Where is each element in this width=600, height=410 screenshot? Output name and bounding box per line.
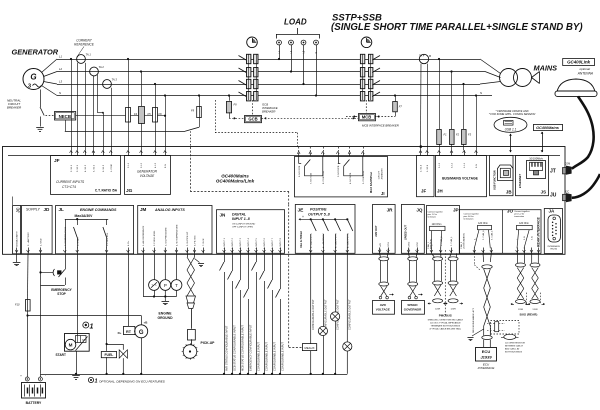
connector JF2 mains CT	[417, 156, 435, 197]
fuse F3	[463, 84, 465, 129]
dashed control wire down to controller	[190, 131, 192, 147]
output 2 wire and lamp	[323, 253, 325, 373]
sensor oil pressure	[164, 253, 166, 279]
svg-text:3- FUEL SOL.: 3- FUEL SOL.	[107, 232, 109, 246]
ground engine sensors	[164, 297, 166, 302]
dashed control wire down to relay pin	[297, 133, 299, 147]
svg-text:terminate: terminate	[428, 216, 437, 219]
svg-text:5- COM MCB: 5- COM MCB	[363, 170, 365, 184]
svg-text:NECB: NECB	[59, 114, 71, 119]
connector JI breaker relays	[295, 157, 388, 197]
label box GC400Mains small	[534, 124, 563, 130]
wire N to JG pin	[165, 96, 167, 151]
timer clock MCB	[361, 37, 372, 48]
svg-text:INPUT 1..8: INPUT 1..8	[232, 217, 250, 221]
svg-text:2- S1.4: 2- S1.4	[421, 164, 423, 172]
emergency stop mushroom	[41, 271, 54, 273]
connector JQ speed out	[401, 205, 424, 254]
svg-text:JE: JE	[298, 208, 305, 214]
svg-text:GC400Mains: GC400Mains	[536, 126, 559, 130]
svg-text:3- NO MCB: 3- NO MCB	[338, 165, 340, 177]
bottom negative bus	[41, 374, 348, 376]
svg-text:BOTH BUS ENDS: BOTH BUS ENDS	[505, 352, 523, 354]
node F9 tap	[198, 94, 200, 96]
dashed termination JO pin4	[473, 253, 475, 264]
svg-text:RT: RT	[126, 330, 132, 334]
pickup twisted pair	[187, 253, 189, 257]
label optional note	[88, 377, 93, 382]
wire start motor return	[76, 351, 78, 374]
svg-text:JT: JT	[550, 168, 556, 174]
svg-text:START: START	[56, 353, 66, 357]
fuse F6	[155, 84, 157, 107]
svg-text:D+: D+	[118, 331, 122, 335]
svg-text:P: P	[164, 283, 167, 288]
connector JC signal earth	[13, 206, 21, 254]
svg-text:L2: L2	[59, 67, 63, 71]
svg-text:MCB STATUS CONFIGURABLE INPUT: MCB STATUS CONFIGURABLE INPUT	[240, 325, 244, 371]
can rear pair at 535	[531, 253, 533, 263]
svg-text:OPTIONAL, DEPENDING ON ECU FEA: OPTIONAL, DEPENDING ON ECU FEATURES	[99, 379, 166, 383]
svg-text:Connect together: Connect together	[514, 210, 530, 213]
generator G1	[23, 69, 44, 90]
svg-text:TA.4: TA.4	[419, 54, 425, 58]
svg-text:JG: JG	[126, 188, 133, 194]
svg-text:CONFIGURABLE OUTPUT: CONFIGURABLE OUTPUT	[312, 299, 315, 330]
wire L3 to transformer	[480, 82, 501, 85]
can pair at 453.1	[450, 253, 451, 257]
svg-text:C-AN_2: C-AN_2	[460, 241, 463, 249]
cable JU stub	[572, 174, 600, 198]
svg-text:2- +OUTPUT 2: 2- +OUTPUT 2	[323, 233, 325, 248]
svg-text:5- C-AN_H: 5- C-AN_H	[482, 230, 485, 240]
svg-text:ANTENNA: ANTENNA	[577, 72, 593, 76]
svg-text:REFERENCE: REFERENCE	[74, 43, 95, 47]
wire L2 to transformer	[485, 72, 501, 78]
pickup shield ground	[195, 259, 200, 263]
breaker GCB 4 poles	[247, 54, 251, 63]
svg-text:GCB: GCB	[248, 116, 257, 121]
svg-text:C-AN_1: C-AN_1	[427, 241, 430, 249]
node F5 tap	[140, 70, 142, 72]
svg-text:F10: F10	[15, 303, 20, 307]
ground start motor	[72, 375, 80, 377]
digital input 4 wire and switch	[248, 253, 250, 289]
node TA4 crossing	[420, 145, 423, 148]
digital input 7 wire and switch	[272, 253, 274, 280]
pickup gear	[183, 345, 197, 359]
svg-text:INTERFACE: INTERFACE	[548, 245, 561, 248]
svg-text:1: 1	[90, 324, 94, 331]
svg-text:MEAUX: MEAUX	[305, 346, 315, 350]
output 4 wire and lamp	[346, 253, 348, 373]
CT TA3	[103, 80, 112, 89]
svg-text:3- C-AN_L: 3- C-AN_L	[450, 236, 453, 246]
connector JM analog inputs	[138, 206, 212, 254]
alternator G charge	[135, 325, 148, 338]
svg-text:ANALOG INPUTS: ANALOG INPUTS	[154, 208, 185, 212]
svg-text:JA: JA	[549, 209, 556, 214]
node F1 tap	[438, 58, 440, 60]
svg-text:TA.3: TA.3	[112, 78, 118, 82]
dashed tie MCB to box	[365, 100, 367, 113]
svg-text:1- COM: 1- COM	[111, 164, 113, 172]
svg-text:BUS (REAR): BUS (REAR)	[520, 313, 538, 317]
svg-text:AVR: AVR	[380, 303, 387, 307]
svg-text:CURRENT INPUTS: CURRENT INPUTS	[56, 180, 85, 184]
svg-text:1- S2.4: 1- S2.4	[427, 164, 429, 172]
relay contact GCB	[298, 156, 300, 164]
wire TA2 secondary a	[92, 76, 94, 150]
arrow usb to JB	[510, 134, 512, 152]
svg-text:SIGNAL EARTH: SIGNAL EARTH	[16, 231, 19, 247]
svg-text:3- L2: 3- L2	[141, 162, 143, 168]
wire an reference	[143, 253, 145, 296]
digital input 3 wire and switch	[240, 253, 242, 280]
dashed control wire vertical x215	[215, 100, 217, 133]
svg-text:M: M	[69, 343, 73, 348]
svg-text:CONFIGURABLE INPUT: CONFIGURABLE INPUT	[280, 342, 284, 371]
svg-text:MAINS: MAINS	[534, 64, 558, 73]
wire TA2 secondary b	[97, 75, 99, 113]
svg-text:BREAKER: BREAKER	[262, 110, 275, 114]
svg-text:CONFIGURABLE INPUT: CONFIGURABLE INPUT	[264, 342, 268, 371]
fuse F4	[128, 59, 130, 107]
fuel valve	[106, 343, 108, 345]
ground generator neutral	[36, 127, 44, 129]
svg-text:7- IN W: 7- IN W	[203, 238, 205, 246]
svg-text:120R: 120R	[435, 308, 441, 310]
usb oval	[494, 117, 527, 132]
svg-text:J1939: J1939	[480, 355, 492, 360]
svg-text:6- INPUT 6: 6- INPUT 6	[264, 237, 266, 249]
dashed wire GCB box to MCB box	[262, 117, 359, 119]
svg-text:SUPPLY: SUPPLY	[26, 208, 40, 212]
wire fuel return	[106, 357, 108, 374]
svg-text:JD: JD	[44, 207, 51, 212]
svg-text:JB: JB	[506, 190, 512, 195]
wire TA3 secondary b	[111, 88, 113, 150]
svg-text:COM: COM	[565, 163, 571, 166]
svg-text:120 Ohm: 120 Ohm	[478, 222, 488, 225]
ecu box	[476, 348, 497, 362]
svg-text:G: G	[30, 73, 36, 82]
svg-text:Connect together: Connect together	[428, 210, 444, 213]
ground signal earth JC	[16, 253, 18, 262]
connector JD supply	[22, 206, 53, 254]
marker optional 1 start	[83, 322, 89, 328]
dashed wire to MEAUX	[288, 205, 290, 348]
svg-text:BUS/MAINS VOLTAGE: BUS/MAINS VOLTAGE	[442, 177, 479, 181]
connector JO can2	[459, 210, 541, 254]
wire D+	[128, 253, 130, 326]
svg-text:L3: L3	[59, 80, 63, 84]
node F3 tap	[462, 83, 464, 85]
antenna horn mains	[532, 72, 540, 78]
svg-text:2- S1.1: 2- S1.1	[71, 164, 73, 172]
svg-text:3- INPUT 3: 3- INPUT 3	[240, 237, 242, 249]
svg-text:SPEED OUT: SPEED OUT	[404, 225, 408, 240]
svg-text:GROUND: GROUND	[157, 316, 173, 320]
resistor 120ohm ecu	[495, 322, 499, 332]
sensor common wire	[154, 290, 156, 296]
svg-text:JP: JP	[453, 208, 459, 213]
switch neutral breaker	[40, 107, 44, 116]
wire gen to L2	[44, 72, 58, 77]
wire TA3 secondary a	[103, 113, 105, 150]
wire load L1 down	[279, 45, 281, 59]
svg-text:SEE ENGINE MANUF. ACT.: SEE ENGINE MANUF. ACT.	[472, 308, 475, 333]
svg-text:* FOR SOME APPL. CONFIG SESSIO: * FOR SOME APPL. CONFIG SESSION	[489, 112, 536, 116]
antenna puck GC400Link	[557, 79, 595, 92]
wire start	[77, 253, 79, 335]
svg-text:GC400Mains/Link: GC400Mains/Link	[216, 179, 255, 184]
connector JF current inputs	[51, 156, 121, 195]
wire gen to N	[42, 86, 58, 96]
svg-text:(PMCBUS): (PMCBUS)	[431, 239, 433, 249]
svg-text:120 Ohm: 120 Ohm	[519, 222, 529, 225]
fuel box	[101, 352, 116, 358]
load bracket	[276, 34, 319, 36]
connector JB usb	[490, 156, 513, 196]
svg-text:JM: JM	[140, 207, 147, 212]
bus wire L3	[57, 84, 480, 86]
svg-text:STOP: STOP	[57, 292, 66, 296]
svg-text:2- C-AN_H: 2- C-AN_H	[440, 236, 443, 246]
svg-text:ETHERNET: ETHERNET	[518, 174, 522, 188]
output 3 wire and lamp	[335, 253, 337, 373]
svg-text:TERMINATE BOTH BUS ENDS: TERMINATE BOTH BUS ENDS	[431, 325, 461, 328]
wire load L3 down	[303, 45, 305, 84]
svg-text:4- L3: 4- L3	[155, 162, 157, 168]
svg-text:5- L3: 5- L3	[439, 162, 441, 168]
svg-text:termination: termination	[514, 215, 524, 218]
wire L1 to transformer	[480, 59, 501, 74]
relay contact MCB	[338, 156, 340, 164]
bus wire N	[57, 95, 492, 97]
dashed wire MCB left	[346, 116, 358, 118]
svg-text:1- INPUT 1: 1- INPUT 1	[224, 237, 226, 249]
twisted pair AVR	[379, 253, 382, 257]
svg-text:1- +VO: 1- +VO	[380, 243, 382, 250]
fuse F1	[439, 59, 441, 129]
node e-stop branch	[39, 271, 41, 273]
svg-text:USB FUNCTION: USB FUNCTION	[493, 170, 497, 190]
svg-text:Connect together: Connect together	[464, 212, 480, 215]
connector JA rs232	[544, 209, 562, 254]
svg-text:PICK-UP: PICK-UP	[201, 341, 216, 345]
wire into JC	[12, 197, 14, 206]
ecu twisted pair	[482, 253, 485, 262]
dashed link to NECB	[46, 115, 55, 117]
svg-text:CONFIGURABLE INPUT: CONFIGURABLE INPUT	[256, 342, 260, 371]
db9 connector icon	[548, 215, 560, 242]
svg-text:4- INPUT 4: 4- INPUT 4	[248, 237, 250, 249]
svg-text:GENERATOR: GENERATOR	[137, 170, 158, 174]
svg-text:+: +	[302, 215, 304, 219]
svg-text:(TYPICAL CABLE BELDEN 9841): (TYPICAL CABLE BELDEN 9841)	[430, 327, 462, 330]
relay box MEAUX	[302, 344, 316, 351]
svg-text:JF: JF	[421, 189, 426, 194]
digital input 8 wire and switch	[280, 253, 282, 289]
svg-text:JQ: JQ	[416, 208, 423, 213]
svg-text:6- NO GCB: 6- NO GCB	[299, 165, 301, 177]
svg-text:120 Ohm TYPICAL IMPEDANCE: 120 Ohm TYPICAL IMPEDANCE	[430, 322, 461, 325]
connector JG generator voltage	[125, 156, 171, 195]
arrow GC400Mains to JS	[542, 132, 544, 152]
connector JL engine commands	[56, 206, 134, 254]
JL internal bus	[65, 219, 108, 221]
svg-text:USB 1.1: USB 1.1	[505, 127, 517, 131]
svg-text:MCB: MCB	[362, 115, 372, 120]
label box GC400Link	[563, 59, 595, 66]
svg-text:4- S1.2: 4- S1.2	[85, 164, 87, 172]
svg-text:7- INPUT 7: 7- INPUT 7	[272, 237, 274, 249]
resistor 120ohm JO left	[478, 225, 492, 229]
svg-text:3- L2: 3- L2	[452, 162, 454, 168]
wire valve return	[122, 358, 124, 374]
svg-text:MCB INTERFACE BREAKER: MCB INTERFACE BREAKER	[362, 124, 399, 128]
can pair at 437.6	[431, 253, 434, 257]
starter motor	[65, 334, 90, 352]
JE internal bus	[300, 218, 348, 220]
wire +B rail	[28, 315, 142, 317]
svg-text:EMERGENCY CONFIGURABLE INPUT: EMERGENCY CONFIGURABLE INPUT	[248, 324, 252, 371]
wire alternator return	[141, 338, 143, 374]
fuse F2	[451, 72, 453, 130]
wire gen to L3	[44, 82, 58, 85]
svg-text:4- D+: 4- D+	[128, 240, 130, 246]
wire load N down	[316, 45, 318, 96]
wire CT ref to JF pin1	[71, 59, 73, 150]
svg-text:6- N: 6- N	[476, 163, 478, 168]
node F8 tap	[228, 94, 230, 96]
svg-text:6- S1.3: 6- S1.3	[103, 164, 105, 172]
svg-text:2- FUEL LEVEL: 2- FUEL LEVEL	[154, 230, 156, 246]
svg-text:G: G	[139, 330, 144, 336]
svg-text:CT1+CT4: CT1+CT4	[62, 185, 76, 189]
svg-text:1- +OUTPUT 1: 1- +OUTPUT 1	[311, 233, 313, 248]
svg-text:3- +OUTPUT 3: 3- +OUTPUT 3	[335, 233, 337, 248]
svg-text:ON 1=INPUT GROUND: ON 1=INPUT GROUND	[232, 224, 256, 226]
svg-text:BREAKER: BREAKER	[7, 106, 22, 110]
resistor 120ohm JP	[430, 226, 446, 230]
svg-text:ECU: ECU	[482, 349, 491, 354]
node current reference tap	[70, 58, 72, 60]
svg-text:BATTERY: BATTERY	[26, 401, 42, 405]
svg-text:120R: 120R	[518, 309, 524, 311]
connector JN digital inputs	[217, 210, 285, 254]
svg-text:2- +BATTERY: 2- +BATTERY	[27, 232, 30, 246]
svg-text:TA.1: TA.1	[86, 53, 92, 57]
svg-text:RS232: RS232	[550, 249, 557, 251]
svg-text:2- -VO2: 2- -VO2	[417, 242, 419, 250]
svg-text:pins 1-2 to: pins 1-2 to	[428, 213, 438, 216]
node +B rail tap	[26, 314, 28, 316]
svg-text:JH: JH	[437, 189, 443, 194]
svg-text:BETWEEN CAN_H: BETWEEN CAN_H	[505, 345, 523, 348]
svg-text:4- NC MCB: 4- NC MCB	[350, 172, 352, 184]
resistor 120ohm JO right	[517, 225, 533, 229]
svg-text:4- W.TEMPERATURE: 4- W.TEMPERATURE	[176, 224, 179, 246]
svg-text:(J1939/CANBUS): (J1939/CANBUS)	[463, 233, 466, 249]
svg-text:8- N: 8- N	[165, 163, 167, 168]
svg-text:JU: JU	[550, 193, 557, 199]
rj45 icon	[527, 161, 546, 179]
svg-text:1- +VO2: 1- +VO2	[409, 241, 411, 250]
node N tap JG	[164, 94, 166, 96]
svg-text:ENGINE COMMANDS: ENGINE COMMANDS	[80, 208, 117, 212]
connector JH bus mains voltage	[436, 156, 487, 197]
svg-text:8- INPUT 8: 8- INPUT 8	[280, 237, 282, 249]
svg-text:BREAKERS: BREAKERS	[381, 168, 384, 180]
transformer mains	[500, 69, 518, 87]
usb-b icon	[498, 165, 514, 181]
controller outer box	[3, 147, 566, 255]
node F4 tap	[127, 58, 129, 60]
svg-text:2- L1: 2- L1	[128, 162, 130, 168]
node F2 tap	[450, 70, 452, 72]
svg-text:JN: JN	[220, 213, 227, 218]
dashed wire F8 to GCB box	[229, 117, 245, 119]
wire TA4 secondary b	[427, 64, 429, 150]
svg-text:120 Ohm: 120 Ohm	[432, 223, 442, 226]
svg-text:termination: termination	[464, 218, 474, 221]
svg-text:120R: 120R	[532, 309, 538, 311]
digital input 6 wire and switch	[264, 253, 266, 271]
wire fuel sol	[106, 253, 108, 351]
leader current reference	[77, 47, 85, 58]
wire TA1 secondary a	[77, 63, 79, 150]
dashed resistor box	[491, 321, 520, 335]
svg-text:REAR INTERFACE: REAR INTERFACE	[537, 216, 541, 247]
dashed control wire horizontal y132.6	[215, 132, 297, 134]
svg-text:2- INPUT 2: 2- INPUT 2	[232, 237, 234, 249]
svg-text:POSITIVE: POSITIVE	[310, 208, 327, 212]
svg-text:5- INPUT 5: 5- INPUT 5	[256, 237, 258, 249]
shield oval ecu	[504, 334, 516, 339]
JL fuel contact	[106, 219, 108, 225]
wire N to JH pin	[476, 96, 478, 151]
svg-text:CONFIGURABLE OUTPUT: CONFIGURABLE OUTPUT	[349, 299, 352, 330]
svg-text:JS: JS	[541, 190, 546, 195]
terminal load L1	[277, 40, 282, 45]
wire gnd battery	[40, 253, 42, 373]
dashed termination JP	[444, 250, 446, 316]
svg-text:T: T	[175, 283, 178, 288]
svg-text:1- AN. REFERENCE: 1- AN. REFERENCE	[142, 225, 145, 246]
wire TA1 secondary b	[85, 63, 87, 150]
breaker box NECB	[55, 112, 76, 121]
svg-text:INTERFACE: INTERFACE	[478, 366, 496, 370]
svg-text:DIGITAL: DIGITAL	[232, 213, 246, 217]
svg-text:PMCBUS: PMCBUS	[439, 314, 452, 318]
svg-text:JR: JR	[387, 208, 394, 213]
connector JE positive outputs	[295, 205, 355, 254]
svg-text:GC400Link: GC400Link	[567, 59, 590, 64]
dashed wire F7 to MCB box	[375, 116, 395, 118]
wire to NECB bottom	[65, 131, 185, 133]
svg-text:1- GND: 1- GND	[41, 238, 43, 246]
dashed termination JO right b	[540, 293, 542, 304]
digital input 5 wire and switch	[256, 253, 258, 262]
svg-text:AVR STATUS CONFIGURABLE INPUT: AVR STATUS CONFIGURABLE INPUT	[224, 325, 228, 371]
svg-text:TA.2: TA.2	[99, 65, 105, 69]
svg-text:FUEL: FUEL	[104, 353, 113, 357]
fuse F5	[141, 72, 143, 107]
sensor temperature	[176, 253, 178, 279]
antenna cable	[572, 96, 594, 168]
